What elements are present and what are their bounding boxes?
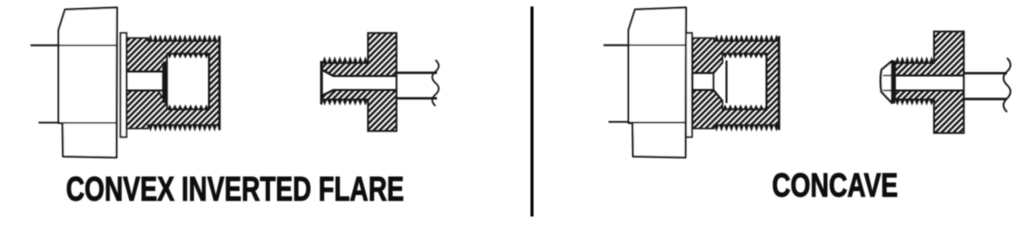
tube upper wall (left figure) [397, 72, 438, 74]
thread serration top of left male nose [322, 57, 368, 64]
concave seat funnel lower edge [714, 90, 723, 101]
internal thread serration bottom of right cavity [723, 105, 767, 110]
internal thread serration top of right cavity [723, 54, 767, 59]
tube lower wall (left figure) [397, 97, 438, 99]
tube bore through flare [883, 75, 895, 77]
convex seat face (bold bar) [163, 62, 168, 103]
left male bore lower line [334, 89, 397, 91]
left male funnel upper edge [322, 70, 334, 76]
wire stub upper-left of left hex nut [31, 44, 60, 46]
tube lower wall (right figure) [964, 98, 1007, 100]
thread serration bottom of right male nose [895, 100, 934, 106]
vertical divider line [531, 7, 534, 217]
left male tube-nut body (hatched) [322, 33, 397, 131]
left slot bore lower line [127, 90, 164, 92]
svg-text:CONCAVE: CONCAVE [772, 167, 898, 204]
thread serration bottom of left male nose [322, 100, 368, 106]
right slot bore lower line [693, 89, 714, 91]
wire stub lower-left of right hex nut [609, 121, 630, 123]
right male tube-nut body (hatched) [895, 32, 964, 134]
flare bell of right male tube [881, 61, 892, 103]
right block right end face [778, 36, 780, 130]
thread serration top of right male nose [895, 57, 934, 64]
external thread serration top of right block [714, 35, 779, 42]
hex nut body (right female fitting) [629, 8, 687, 158]
tube break squiggle (right figure) [1004, 58, 1011, 112]
concave seat funnel upper edge [714, 63, 723, 74]
right cavity end wall line [766, 54, 768, 110]
concave seat cone-base line [726, 61, 728, 104]
left male nose end face [320, 61, 322, 105]
svg-text:CONVEX INVERTED FLARE: CONVEX INVERTED FLARE [66, 171, 404, 209]
sectioned body of right female fitting (hatched) [693, 38, 780, 129]
flare base bold bar [891, 61, 895, 104]
collar washer of left female fitting [121, 33, 127, 137]
tube break squiggle (left figure) [432, 60, 439, 106]
right slot bore upper line [693, 72, 714, 74]
external thread serration top of left block [148, 35, 220, 42]
left block right end face [218, 36, 220, 130]
tube upper wall (right figure) [964, 72, 1007, 74]
wire stub lower-left of left hex nut [39, 122, 60, 124]
sectioned body of left female fitting (hatched) [127, 38, 220, 129]
external thread serration bottom of right block [714, 125, 779, 132]
right male bore lower line [895, 90, 964, 92]
left slot bore upper line [127, 71, 164, 73]
wire stub upper-left of right hex nut [604, 44, 630, 46]
external thread serration bottom of left block [148, 125, 220, 132]
left cavity end wall line [208, 54, 210, 110]
internal thread serration top of left cavity [167, 54, 209, 59]
hex nut body (left female fitting) [59, 8, 118, 158]
internal thread serration bottom of left cavity [167, 105, 209, 110]
left male bore upper line [334, 75, 397, 77]
right male bore upper line [895, 75, 964, 77]
left male funnel lower edge [322, 90, 334, 96]
collar washer of right female fitting [686, 33, 692, 137]
